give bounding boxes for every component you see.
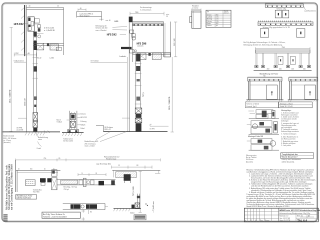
- svg-text:12: 12: [250, 220, 252, 222]
- leader with text: [14, 61, 26, 63]
- svg-text:737,5: 737,5: [143, 92, 145, 97]
- roller cluster: [130, 30, 134, 33]
- small right box: [56, 47, 61, 50]
- block 3: [34, 96, 37, 100]
- svg-text:Schiene an Wand: Schiene an Wand: [246, 103, 259, 105]
- plan overall dim line: [16, 158, 161, 168]
- svg-text:750 / 880: 750 / 880: [33, 192, 40, 194]
- elevation 1: double leaf pocket: [265, 3, 316, 18]
- leaf lines: [33, 45, 35, 132]
- svg-text:Typ: Typ: [207, 11, 209, 13]
- left margin rotated note strip: [5, 163, 13, 210]
- svg-text:Führung: Führung: [207, 21, 212, 23]
- svg-text:860: 860: [216, 14, 218, 16]
- svg-text:2015 1-f: 2015 1-f: [224, 12, 229, 14]
- floor corner detail bottom-middle: [114, 194, 156, 220]
- track band with fasteners: [133, 24, 164, 26]
- svg-text:HAWA Junior HFS DX2 Schiebetür: HAWA Junior HFS DX2 Schiebetürbeschlag H…: [279, 209, 320, 212]
- bottom guide block with cross: [33, 113, 38, 121]
- wall fixing detail small rect: [190, 5, 202, 28]
- svg-text:40: 40: [18, 168, 20, 170]
- dim line: [14, 54, 36, 56]
- svg-text:737,5 / 880: 737,5 / 880: [133, 187, 135, 196]
- bottom guide with cross: [135, 108, 142, 114]
- floor guide detail (separate): [57, 111, 87, 143]
- svg-text:750 kpl.: 750 kpl.: [64, 189, 70, 191]
- note text 2 lines: [244, 41, 286, 46]
- tick: [33, 57, 38, 59]
- svg-text:Schiene: Schiene: [207, 14, 212, 16]
- svg-text:55: 55: [166, 16, 168, 18]
- svg-text:Zubehör: Zubehör: [207, 25, 212, 27]
- right small box: [164, 53, 170, 57]
- leader top: [91, 61, 128, 63]
- section A vertical door leaf: [9, 27, 50, 133]
- svg-text:±0,00 NN: ±0,00 NN: [16, 130, 24, 132]
- svg-text:10x30 mm: 10x30 mm: [246, 159, 254, 161]
- elevation 4: two wall frames: [246, 76, 318, 102]
- notes block: [246, 168, 316, 208]
- svg-text:Horizontalschnitt 1:2: Horizontalschnitt 1:2: [104, 155, 119, 158]
- svg-text:Bodenführung: Bodenführung: [38, 137, 48, 139]
- title block: [244, 208, 320, 222]
- feet: [255, 65, 311, 67]
- svg-text:660: 660: [30, 168, 33, 170]
- svg-text:HFS DX2: HFS DX2: [14, 24, 24, 26]
- svg-text:OK FFB: OK FFB: [16, 127, 22, 129]
- parts table: [206, 10, 231, 27]
- right bars: [57, 178, 116, 180]
- svg-text:Bodenführung HFS: Bodenführung HFS: [85, 141, 99, 143]
- sill step: [96, 124, 103, 126]
- box with cross: [37, 43, 44, 50]
- svg-text:12: 12: [57, 6, 59, 8]
- svg-text:Gepr. 05.12 TB: Gepr. 05.12 TB: [279, 220, 290, 222]
- leaf column lines: [135, 53, 137, 108]
- svg-text:Gez. 05.12 MK: Gez. 05.12 MK: [279, 218, 291, 220]
- label box under plan: [16, 195, 37, 200]
- svg-text:HFS DX8: HFS DX8: [137, 43, 147, 45]
- svg-text:2090 LDH: 2090 LDH: [24, 97, 26, 106]
- svg-text:FFB - OK Schiene: FFB - OK Schiene: [3, 138, 16, 140]
- leaders to text: [96, 132, 110, 140]
- svg-text:Blende: Blende: [207, 23, 211, 25]
- detail D2 head section top-middle: [96, 6, 178, 59]
- small head track detail top: [77, 8, 119, 23]
- verticals going down: [123, 181, 125, 183]
- svg-text:85: 85: [59, 158, 61, 160]
- svg-text:40: 40: [44, 168, 46, 170]
- svg-text:L=2xTB+100 mm: L=2xTB+100 mm: [304, 10, 316, 12]
- svg-text:2015 / 2340 RD: 2015 / 2340 RD: [169, 96, 171, 110]
- right dim line: [175, 22, 177, 57]
- plan row 1: [16, 160, 161, 213]
- svg-text:Name: Name: [265, 220, 269, 222]
- svg-text:FFB +12: FFB +12: [105, 129, 111, 131]
- top dim line: [130, 13, 164, 15]
- section B vertical door leaf: [85, 22, 174, 147]
- right dim marks: [112, 166, 153, 168]
- lower band lines: [33, 42, 64, 44]
- small dark clip: [47, 44, 49, 47]
- leaf top dark: [129, 17, 133, 23]
- svg-text:860: 860: [216, 23, 218, 25]
- block 3: [136, 97, 140, 101]
- dim row above bars: [78, 174, 106, 176]
- svg-text:Dübel je nach Wandaufbau: Dübel je nach Wandaufbau: [282, 159, 301, 161]
- right frame line: [63, 8, 65, 56]
- floor line left: [3, 127, 60, 150]
- block 1: [136, 54, 140, 62]
- floor hatch: [25, 132, 45, 135]
- frame B: [289, 76, 318, 78]
- floor segment under guide: [62, 132, 84, 134]
- left small label lines: [246, 154, 257, 163]
- elevation 2: leaves at ends: [258, 21, 313, 38]
- svg-text:Laufsch.: Laufsch.: [120, 56, 127, 58]
- svg-text:15: 15: [82, 173, 84, 175]
- svg-text:= 7,5x30 mm: = 7,5x30 mm: [153, 201, 155, 212]
- svg-text:Stand 02/2012 Blatt 1 von 1: Stand 02/2012 Blatt 1 von 1 Ersatz für A…: [246, 205, 289, 208]
- svg-text:750: 750: [44, 158, 47, 160]
- small dark clip: [148, 53, 150, 56]
- mounting detail M3: [247, 139, 279, 151]
- frame profile box: [25, 180, 35, 186]
- svg-text:292 / 340: 292 / 340: [174, 39, 176, 47]
- dark square: [99, 181, 105, 185]
- svg-text:Wandbef.: Wandbef.: [192, 5, 199, 7]
- svg-text:Laufwerk: Laufwerk: [207, 17, 213, 19]
- block 2: [136, 66, 140, 71]
- revision grid: [244, 208, 278, 222]
- mini list box: [134, 215, 146, 220]
- right long dim: [171, 57, 173, 132]
- svg-text:LDB 750 / LDH 2015: LDB 750 / LDH 2015: [17, 198, 31, 200]
- boxed note bottom-left: [42, 212, 80, 218]
- svg-text:HFS DX2: HFS DX2: [107, 34, 117, 36]
- svg-text:Tragfähigkeit der: Tragfähigkeit der: [282, 153, 299, 156]
- hatched box: [152, 53, 161, 59]
- svg-text:nur mit Genehmigung. © 2012 Mu: nur mit Genehmigung. © 2012 Muster GmbH: [10, 164, 13, 210]
- svg-text:05: 05: [255, 220, 257, 222]
- svg-text:Montage-Dübel S8: Montage-Dübel S8: [248, 135, 263, 138]
- left dim line: [10, 27, 12, 131]
- small parts: [79, 180, 83, 185]
- svg-text:Konsole Typ K: Konsole Typ K: [246, 106, 257, 108]
- dim tick texts above line: [18, 168, 55, 170]
- profile cluster: [28, 17, 34, 31]
- svg-text:min.42: min.42: [37, 58, 42, 60]
- svg-text:83: 83: [96, 173, 98, 175]
- block 1: [33, 45, 37, 50]
- top frame lines: [26, 7, 63, 9]
- svg-text:M8x25: M8x25: [81, 124, 86, 126]
- svg-text:UK Schiene: UK Schiene: [105, 127, 114, 129]
- svg-text:Dübel S8 / 5,5x50: Dübel S8 / 5,5x50: [280, 106, 293, 108]
- svg-text:15: 15: [118, 165, 120, 167]
- leaf symbols: [278, 56, 283, 64]
- box with cross: [137, 53, 146, 60]
- right corner with wall: [112, 169, 160, 171]
- top bar lines: [133, 21, 164, 23]
- lower band lines: [133, 52, 171, 54]
- svg-text:o. 4,8x38 Bl.: o. 4,8x38 Bl.: [44, 30, 56, 32]
- second dim line: [18, 117, 27, 119]
- important note bigger: [281, 153, 314, 164]
- svg-text:Führung: Führung: [81, 121, 87, 123]
- svg-text:TAL 6.4: TAL 6.4: [297, 218, 307, 222]
- dim vertical: [139, 171, 141, 212]
- base plate: [68, 129, 79, 132]
- right frame lines: [163, 22, 165, 57]
- top line: [16, 169, 61, 171]
- svg-text:Lage Beschläge (Bx): Lage Beschläge (Bx): [96, 164, 111, 166]
- mounting detail M1: [248, 110, 279, 119]
- svg-text:2015 / 2340 RD: 2015 / 2340 RD: [9, 89, 11, 103]
- svg-text:40: 40: [80, 8, 82, 10]
- dim crosses: [82, 209, 85, 220]
- svg-text:ca. 12 mm: ca. 12 mm: [3, 140, 11, 142]
- svg-text:Wand beachten!: Wand beachten!: [282, 156, 298, 159]
- svg-text:Laufwerk: Laufwerk: [137, 46, 144, 48]
- hatched box: [50, 44, 58, 50]
- door leaf top parts: [33, 32, 36, 37]
- corner assembly: [52, 170, 57, 176]
- svg-text:a: a: [245, 220, 246, 222]
- svg-text:Rev: Rev: [260, 220, 263, 222]
- section title above plan: [104, 155, 119, 160]
- detail D1 head/jamb section top-left: [14, 5, 64, 132]
- svg-text:Bohrungen anzeichnen: Bohrungen anzeichnen: [281, 114, 298, 116]
- svg-text:Laufschiene HFS im: Laufschiene HFS im: [80, 14, 94, 16]
- bottom-left page mark: [3, 214, 7, 221]
- svg-text:OK FFB: OK FFB: [150, 128, 155, 130]
- svg-text:L=860: L=860: [50, 58, 55, 60]
- svg-text:Türbreite + 100 mm bestellen!: Türbreite + 100 mm bestellen!: [43, 215, 67, 218]
- svg-text:8. Blende aufclipsen: 8. Blende aufclipsen: [281, 143, 295, 145]
- svg-text:min. 40: min. 40: [106, 20, 111, 22]
- svg-text:83: 83: [137, 165, 139, 167]
- mounting text right column: [281, 109, 299, 147]
- insulated hatch bar: [61, 180, 78, 184]
- mini table strip: [245, 102, 312, 108]
- twin dark clamps: [40, 178, 46, 182]
- main block: [279, 211, 319, 221]
- svg-text:9. Lauf prüfen: 9. Lauf prüfen: [281, 145, 291, 147]
- right floor segment upper: [150, 125, 169, 127]
- svg-text:Wandöffnung mit Futter: Wandöffnung mit Futter: [260, 73, 279, 76]
- svg-text:o. Decke: o. Decke: [192, 7, 198, 9]
- plan row 2: [63, 204, 108, 221]
- elevation 3: frame with posts: [254, 47, 312, 71]
- block 2: [33, 66, 37, 71]
- svg-text:Wasserwaage prüfen,: Wasserwaage prüfen,: [281, 125, 297, 127]
- wall line: [21, 8, 24, 51]
- svg-text:Dübel: Dübel: [81, 128, 86, 130]
- svg-text:HFS 295: HFS 295: [81, 117, 87, 119]
- svg-text:85: 85: [90, 212, 92, 214]
- svg-text:40: 40: [29, 5, 31, 7]
- svg-text:Schiene alle 400: Schiene alle 400: [96, 28, 108, 30]
- tick: [33, 77, 38, 79]
- mounting detail M2: [247, 121, 279, 135]
